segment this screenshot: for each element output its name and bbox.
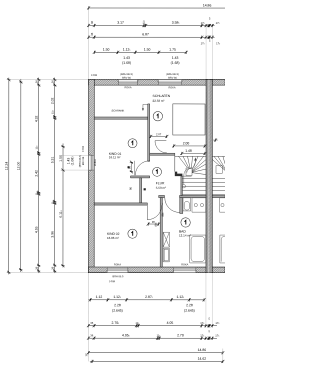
dimension row 2 top: 36/3.17/11.5/3.58: [89, 24, 215, 26]
right unit: bad north wall: [212, 195, 225, 197]
door Kind 02 width dim 90: [148, 223, 158, 225]
svg-text:(BRH 86.5): (BRH 86.5): [120, 73, 133, 76]
svg-text:ROKA: ROKA: [94, 159, 97, 166]
svg-text:2.70: 2.70: [177, 333, 184, 337]
svg-text:16.11 m²: 16.11 m²: [109, 155, 121, 159]
fixture shower: [163, 232, 169, 247]
svg-text:90: 90: [127, 166, 131, 169]
svg-text:2.875: 2.875: [145, 295, 153, 299]
dimension row 4 top: 1.50/1.12/1.50/1.75 window positions: [94, 51, 186, 53]
svg-text:6.87: 6.87: [142, 32, 149, 36]
extension lines left window: [61, 154, 89, 156]
door Kind 02 leaf and arc: [146, 205, 148, 220]
dimension row B bottom: 36/2.70/11.5/4.05/17.5: [88, 325, 216, 327]
svg-text:5.59 m²: 5.59 m²: [156, 186, 166, 190]
svg-text:1.125: 1.125: [177, 295, 185, 299]
interior wall Kind02 north: [94, 203, 147, 205]
stair west wall lower: [181, 176, 183, 195]
left chain 1: total 12.24: [8, 78, 10, 275]
left chain 2: 12.00: [20, 79, 22, 272]
svg-text:90: 90: [128, 187, 132, 190]
svg-text:36: 36: [50, 266, 54, 269]
left chain 5: 1.50 window / 6.11: [62, 143, 64, 267]
door Schlafen position dim: [151, 135, 167, 137]
svg-text:SCHLAFEN: SCHLAFEN: [153, 94, 171, 98]
dimension row 1 top: total 14.86: [89, 7, 225, 9]
svg-text:36: 36: [90, 321, 93, 325]
svg-text:36: 36: [34, 266, 38, 269]
svg-text:9 RM: 9 RM: [91, 74, 97, 77]
svg-text:(1.68): (1.68): [171, 61, 180, 65]
svg-text:36: 36: [35, 80, 39, 83]
right unit: bathtub partial: [220, 235, 226, 263]
stairs top tread edge: [175, 155, 206, 157]
interior wall Schrank south: [94, 117, 148, 119]
svg-text:16.06 m²: 16.06 m²: [107, 236, 119, 240]
svg-text:1.43: 1.43: [172, 56, 179, 60]
fixture washbasin: [192, 198, 206, 212]
svg-text:BRV 86: BRV 86: [168, 77, 177, 80]
stairs walk line with start circle and arrow: [182, 160, 195, 188]
stairs treads lower flight: [182, 178, 206, 194]
exterior wall left: [88, 79, 94, 272]
level circle 1 Kind 01: [128, 139, 137, 148]
svg-text:36: 36: [90, 333, 93, 337]
svg-text:(2.645): (2.645): [112, 309, 123, 313]
void opening rectangle in Schlafen: [173, 104, 205, 135]
svg-text:36: 36: [90, 20, 94, 23]
door Schlafen leaf and arc: [155, 140, 166, 142]
fixture bathtub: [190, 235, 206, 263]
interior wall Bad north left piece: [159, 195, 165, 197]
svg-text:9 RM: 9 RM: [109, 280, 115, 283]
level circle 1 Schlafen: [153, 112, 162, 121]
interior wall Bad north right piece: [179, 195, 206, 197]
svg-text:BRH 86.5: BRH 86.5: [113, 275, 124, 278]
door Bad arc: [165, 198, 180, 213]
level circle 1 Bad: [181, 218, 190, 227]
party wall (17.5/5/17.5): [206, 79, 212, 272]
svg-text:3.17: 3.17: [117, 21, 124, 25]
stair corner solid block L: [175, 172, 183, 177]
left chain 3: 36/4.32/11.5/2.42/11.5/4.55/36: [38, 78, 40, 273]
svg-text:4.05: 4.05: [167, 321, 174, 325]
window W3 bottom (Kind 02): [107, 267, 129, 272]
svg-text:2.28: 2.28: [186, 303, 193, 307]
svg-text:(2.645): (2.645): [184, 309, 195, 313]
exterior wall bottom: [88, 267, 225, 273]
window W5 left (Kind 01): [89, 155, 94, 171]
stairs hub arc: [187, 168, 191, 172]
interior wall Schlafen south: [150, 153, 175, 155]
right unit: stairs treads: [212, 156, 225, 194]
dimension row 3 top: 36/6.87: [89, 36, 215, 38]
svg-text:BRV 86: BRV 86: [82, 156, 85, 165]
svg-text:4.55: 4.55: [34, 226, 38, 233]
svg-text:14.86: 14.86: [198, 348, 207, 352]
extension line bottom-left: [6, 271, 88, 273]
interior wall Bad west: [160, 198, 162, 267]
stairs hub landing block: [186, 168, 192, 176]
svg-text:4.055: 4.055: [122, 333, 130, 337]
extension line from plan top-left corner up to row1: [88, 6, 90, 79]
svg-text:1.43: 1.43: [123, 56, 130, 60]
svg-text:3.585: 3.585: [172, 21, 180, 25]
dimension row D bottom: 14.86: [88, 352, 223, 354]
svg-text:2.705: 2.705: [112, 321, 120, 325]
dimension row E bottom: 14.62: [90, 360, 224, 362]
extension lines party wall to top rows: [205, 27, 207, 79]
svg-text:2.00: 2.00: [183, 141, 190, 145]
svg-text:(1.68): (1.68): [122, 61, 131, 65]
svg-text:12.24: 12.24: [5, 162, 9, 171]
stairs winder bottom tread edge: [182, 175, 191, 177]
svg-text:9 RM: 9 RM: [82, 146, 85, 152]
level circle 1 Kind 02: [128, 229, 137, 238]
svg-text:12.00: 12.00: [17, 162, 21, 171]
svg-text:(1.68): (1.68): [70, 157, 74, 166]
dimension 2.00 inside: [174, 145, 205, 147]
interior wall nook vertical: [140, 178, 142, 203]
right unit: stair fan lines: [212, 156, 225, 170]
svg-text:5.31: 5.31: [51, 157, 55, 164]
svg-text:ROKA: ROKA: [125, 86, 132, 89]
right unit: dim tick: [214, 138, 217, 141]
svg-text:6.115: 6.115: [59, 210, 63, 217]
svg-text:12.14 m²: 12.14 m²: [179, 234, 191, 238]
window W2 top (Schlafen): [158, 80, 183, 85]
svg-text:1.12: 1.12: [96, 295, 103, 299]
right unit: landing block: [216, 166, 222, 174]
svg-text:4.32: 4.32: [35, 115, 39, 122]
svg-text:ROKA: ROKA: [169, 86, 176, 89]
svg-text:36: 36: [51, 80, 55, 83]
fixture WC: [183, 198, 191, 211]
dimension row A bottom: 1.12/1.12/2.87/1.12 window positions: [88, 299, 204, 301]
extension line bottom-left vertical: [87, 273, 89, 362]
svg-text:1.50: 1.50: [59, 155, 63, 162]
interior wall Kind01/Flur vertical: [148, 104, 150, 161]
svg-text:1.50: 1.50: [144, 48, 151, 52]
svg-text:SCHRANK: SCHRANK: [112, 108, 125, 112]
door Kind 01 width dim 90: [130, 162, 132, 173]
svg-text:(BRH 86.5): (BRH 86.5): [166, 73, 179, 76]
svg-text:BRV 86: BRV 86: [122, 77, 131, 80]
exterior wall top: [89, 79, 226, 85]
window W1 top (Schrank): [118, 80, 138, 85]
dimension row C bottom: 36/4.05/11.5/2.70/17.5: [88, 337, 216, 339]
extension lines bottom party wall: [205, 273, 207, 324]
svg-text:22.33 m²: 22.33 m²: [153, 99, 165, 103]
svg-text:14.86: 14.86: [203, 3, 212, 7]
fixture washer: [163, 248, 169, 262]
extension line bottom right vertical: [222, 349, 224, 362]
window W4 bottom (Bad): [173, 267, 196, 272]
svg-text:1.125: 1.125: [113, 295, 121, 299]
extension line top-left: [7, 79, 89, 81]
stairs winder fan: [179, 156, 207, 174]
door Schrank passage arrow: [143, 104, 148, 109]
svg-text:2.02: 2.02: [51, 97, 55, 104]
svg-text:ROKA: ROKA: [114, 263, 121, 266]
door Kind 01 (arc into room): [135, 161, 149, 175]
svg-text:2.28: 2.28: [114, 303, 121, 307]
svg-text:1.75: 1.75: [169, 48, 176, 52]
svg-text:2.42: 2.42: [35, 170, 39, 177]
svg-text:14.62: 14.62: [198, 357, 207, 361]
svg-text:1.125: 1.125: [123, 48, 131, 52]
right unit: washbasin partial: [220, 198, 226, 212]
svg-text:ROKA: ROKA: [181, 263, 188, 266]
svg-text:1.48: 1.48: [185, 149, 192, 153]
interior wall WC stub: [180, 198, 183, 214]
stair west edge upper: [174, 155, 176, 171]
interior wall Kind02 north right stub: [160, 203, 162, 205]
dimension 1.48 inside: [182, 152, 205, 154]
svg-text:FLUR: FLUR: [156, 181, 165, 185]
svg-text:12: 12: [84, 353, 88, 356]
svg-text:36: 36: [90, 32, 94, 35]
interior wall nook horizontal: [131, 176, 150, 178]
svg-text:2.07: 2.07: [156, 132, 162, 136]
svg-text:3.96: 3.96: [50, 231, 54, 238]
left chain 4: 36/2.02/11.5/5.31/11.5/3.96/36: [54, 78, 56, 274]
svg-text:1.50: 1.50: [103, 48, 110, 52]
level circle 1 Flur: [153, 167, 162, 176]
